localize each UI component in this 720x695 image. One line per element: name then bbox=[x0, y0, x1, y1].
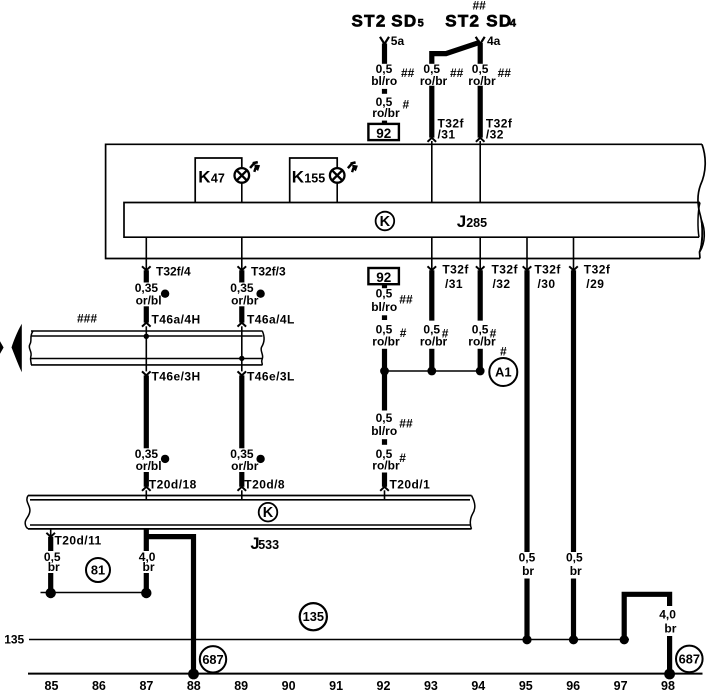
wire branch to ground (thick bracket) bbox=[146, 537, 193, 674]
svg-text:ro/br: ro/br bbox=[420, 334, 448, 348]
svg-text:ro/br: ro/br bbox=[468, 334, 496, 348]
svg-text:ro/br: ro/br bbox=[372, 458, 400, 472]
svg-text:/32: /32 bbox=[493, 277, 511, 291]
splice dot (B lower) bbox=[256, 455, 264, 463]
svg-text:T46a/4L: T46a/4L bbox=[247, 313, 295, 327]
svg-text:/30: /30 bbox=[538, 277, 556, 291]
wire dash (color change) bbox=[382, 89, 387, 94]
gateway J533 box bbox=[25, 496, 475, 529]
wire dash (C mid) bbox=[382, 315, 387, 320]
svg-text:91: 91 bbox=[329, 679, 343, 693]
ground wire 135 bbox=[29, 639, 629, 641]
svg-text:86: 86 bbox=[92, 679, 106, 693]
wire 135 to ground 687 (thick bracket right) bbox=[624, 594, 669, 674]
connector chevron T32f/31 bottom bbox=[428, 266, 437, 270]
pin stub T32f/3 bbox=[241, 237, 243, 270]
wire end dot (I) bbox=[141, 588, 151, 598]
J285 outer box torn right edge bbox=[698, 144, 705, 258]
svg-text:##: ## bbox=[473, 0, 487, 12]
lamp K47 box bbox=[195, 158, 242, 203]
svg-text:##: ## bbox=[401, 66, 415, 80]
ground reference 81 bbox=[86, 558, 110, 582]
warning arrow at K155 bbox=[348, 162, 358, 172]
svg-text:bl/ro: bl/ro bbox=[371, 300, 397, 314]
ground rail bbox=[28, 673, 703, 675]
svg-text:##: ## bbox=[450, 66, 464, 80]
ground link wire bbox=[41, 592, 147, 594]
svg-text:T20d/1: T20d/1 bbox=[390, 478, 431, 492]
svg-text:47: 47 bbox=[211, 171, 225, 185]
svg-text:/31: /31 bbox=[438, 128, 456, 142]
wire E to junction bbox=[478, 349, 483, 371]
J533 torn right edge bbox=[470, 496, 475, 529]
svg-text:#: # bbox=[399, 451, 406, 465]
wire br (T20d/11) bbox=[48, 537, 53, 593]
svg-text:687: 687 bbox=[679, 651, 700, 666]
svg-text:A1: A1 bbox=[495, 365, 512, 380]
svg-text:br: br bbox=[664, 622, 676, 636]
ground junction dot at 88 bbox=[188, 669, 199, 680]
svg-text:or/bl: or/bl bbox=[136, 293, 162, 307]
J285 internal bus box bbox=[124, 203, 700, 238]
svg-text:ro/br: ro/br bbox=[372, 106, 400, 120]
connector chevron T20d/11 bbox=[46, 533, 55, 537]
sheath continuation arrow clipped at edge bbox=[0, 341, 4, 353]
svg-text:##: ## bbox=[498, 66, 512, 80]
warning arrow at K47 bbox=[250, 162, 260, 172]
connector chevron T32f/31 top bbox=[428, 138, 437, 142]
junction dot E bbox=[476, 367, 485, 376]
wire or/br upper (B) bbox=[239, 270, 244, 322]
wire A through sheath bbox=[145, 326, 147, 371]
svg-text:T20d/8: T20d/8 bbox=[244, 478, 285, 492]
J533 torn left edge bbox=[25, 496, 30, 529]
wire T32f/31 below box bbox=[429, 270, 434, 320]
pin stub T32f/30 bbox=[526, 237, 528, 270]
wire T32f/32 below box bbox=[478, 270, 483, 320]
svg-text:K: K bbox=[198, 167, 211, 186]
svg-text:5a: 5a bbox=[391, 34, 405, 48]
svg-text:81: 81 bbox=[91, 563, 105, 578]
ground connection 687 (left) bbox=[200, 646, 226, 672]
svg-text:br: br bbox=[570, 564, 582, 578]
svg-text:0,5: 0,5 bbox=[376, 411, 393, 425]
svg-text:687: 687 bbox=[202, 652, 223, 667]
junction dot F on 135 bbox=[522, 635, 531, 644]
junction dot at 97 bbox=[620, 635, 629, 644]
connector arrow 5a bbox=[380, 37, 389, 44]
svg-text:T32f: T32f bbox=[584, 263, 611, 277]
sheath top outer line bbox=[31, 330, 263, 332]
wire or/bl upper (A) bbox=[144, 270, 149, 322]
connector chevron T20d/8 bbox=[238, 487, 247, 491]
svg-text:##: ## bbox=[399, 416, 413, 430]
svg-text:135: 135 bbox=[303, 609, 324, 624]
J285 torn edge lens mark bbox=[700, 220, 704, 252]
svg-text:4: 4 bbox=[510, 18, 517, 30]
wire C to junction bbox=[382, 349, 387, 371]
svg-text:###: ### bbox=[77, 311, 97, 325]
svg-text:95: 95 bbox=[519, 679, 533, 693]
wire K155 lamp to bus bbox=[336, 182, 338, 202]
sheath junction dot (A) bbox=[144, 334, 149, 339]
svg-text:87: 87 bbox=[139, 679, 153, 693]
wire from SD4 4a (ro/br) bbox=[478, 43, 483, 64]
svg-text:J: J bbox=[457, 212, 466, 231]
sheath left continuation arrow bbox=[12, 324, 22, 373]
svg-text:or/bl: or/bl bbox=[136, 459, 162, 473]
connector chevron T32f/32 bottom bbox=[476, 266, 485, 270]
svg-text:T32f/3: T32f/3 bbox=[251, 265, 286, 279]
wire B through sheath bbox=[241, 326, 243, 371]
sheath bottom inner line bbox=[31, 358, 263, 360]
svg-text:T20d/18: T20d/18 bbox=[149, 478, 197, 492]
svg-text:T46e/3H: T46e/3H bbox=[152, 370, 201, 384]
svg-text:4,0: 4,0 bbox=[659, 608, 676, 622]
junction dot C bbox=[380, 367, 389, 376]
connector chevron T46e/3L bbox=[238, 371, 247, 375]
sheath bottom outer line bbox=[31, 364, 263, 366]
svg-text:96: 96 bbox=[566, 679, 580, 693]
svg-text:0,5: 0,5 bbox=[566, 550, 583, 564]
connector chevron T32f/30 bbox=[523, 266, 532, 270]
wire stub above 92 box bbox=[382, 121, 387, 125]
svg-text:/31: /31 bbox=[445, 277, 463, 291]
svg-text:88: 88 bbox=[187, 679, 201, 693]
svg-text:or/br: or/br bbox=[231, 459, 259, 473]
connector chevron T46a/4H bbox=[142, 323, 151, 327]
svg-text:#: # bbox=[403, 98, 410, 112]
wire end dot (H) bbox=[46, 588, 56, 598]
connection A1 bbox=[489, 358, 517, 386]
svg-text:ST2: ST2 bbox=[352, 12, 387, 31]
svg-text:K: K bbox=[292, 167, 305, 186]
wire T32f/31 inside box bbox=[431, 141, 433, 203]
wire T32f/32 inside box bbox=[479, 141, 481, 203]
connector arrow 4a bbox=[476, 37, 485, 44]
pin stub T32f/4 bbox=[145, 237, 147, 270]
ground junction dot at 98 bbox=[664, 669, 675, 680]
svg-text:92: 92 bbox=[376, 270, 391, 285]
lamp K155 box bbox=[290, 158, 338, 203]
svg-text:T46e/3L: T46e/3L bbox=[247, 370, 295, 384]
splice dot (B upper) bbox=[256, 290, 264, 298]
reference box 92 (middle) bbox=[368, 268, 399, 285]
svg-text:/29: /29 bbox=[586, 277, 604, 291]
connector chevron T32f/4 bbox=[142, 266, 151, 270]
J533 bus symbol circled K bbox=[259, 503, 278, 522]
connector chevron T20d/1 bbox=[380, 487, 389, 491]
wire or/bl lower (A) bbox=[144, 375, 149, 486]
pin stub T20d/11 bbox=[50, 529, 52, 537]
lamp K47 bulb symbol bbox=[235, 168, 250, 183]
ground connection 687 (right) bbox=[676, 646, 703, 673]
svg-text:98: 98 bbox=[661, 679, 675, 693]
wire B into J533 bbox=[241, 490, 243, 500]
svg-text:85: 85 bbox=[45, 679, 59, 693]
bus symbol circled K bbox=[376, 212, 395, 231]
svg-text:533: 533 bbox=[258, 538, 279, 552]
svg-text:T46a/4H: T46a/4H bbox=[152, 313, 201, 327]
J285 bus torn right edge bbox=[698, 203, 700, 238]
wire A into J533 bbox=[145, 490, 147, 500]
svg-text:##: ## bbox=[399, 292, 413, 306]
wire C into J533 bbox=[384, 490, 386, 500]
sheath junction dot (B) bbox=[239, 356, 244, 361]
connector chevron T46a/4L bbox=[238, 323, 247, 327]
svg-text:#: # bbox=[400, 326, 407, 340]
wire or/br lower (B) bbox=[239, 375, 244, 486]
svg-text:bl/ro: bl/ro bbox=[371, 424, 397, 438]
wire branch 4a to T32f/31 (diagonal) bbox=[430, 42, 481, 53]
svg-text:T32f: T32f bbox=[534, 263, 561, 277]
svg-text:or/br: or/br bbox=[231, 293, 259, 307]
svg-text:92: 92 bbox=[376, 126, 391, 141]
wire C to T20d/1 bbox=[382, 473, 387, 487]
svg-text:135: 135 bbox=[4, 633, 24, 647]
svg-text:0,5: 0,5 bbox=[376, 287, 393, 301]
connector chevron T46e/3H bbox=[142, 371, 151, 375]
reference box 92 (top) bbox=[368, 124, 399, 141]
svg-text:92: 92 bbox=[377, 679, 391, 693]
sheath torn left edge bbox=[29, 331, 33, 365]
wire T32f/31 top segment bbox=[429, 51, 434, 64]
svg-text:155: 155 bbox=[304, 171, 325, 185]
svg-text:5: 5 bbox=[418, 18, 424, 30]
svg-text:285: 285 bbox=[466, 216, 487, 230]
junction dot G on 135 bbox=[569, 635, 578, 644]
svg-text:94: 94 bbox=[471, 679, 485, 693]
wire 0,5 br (F) bbox=[524, 270, 529, 640]
sheath top inner line bbox=[31, 335, 263, 337]
ground reference 135 bbox=[300, 603, 327, 630]
svg-text:K: K bbox=[380, 214, 391, 230]
connector chevron T32f/32 top bbox=[476, 138, 485, 142]
wire stub below 92 box bbox=[382, 284, 387, 288]
pin stub T32f/29 bbox=[573, 237, 575, 270]
svg-text:T32f: T32f bbox=[442, 263, 469, 277]
wire K47 lamp to bus bbox=[241, 182, 243, 202]
svg-text:97: 97 bbox=[614, 679, 628, 693]
svg-text:89: 89 bbox=[234, 679, 248, 693]
connector chevron T32f/3 bbox=[238, 266, 247, 270]
svg-text:br: br bbox=[143, 560, 155, 574]
wire T32f/31 into box bbox=[429, 86, 434, 138]
svg-text:K: K bbox=[263, 505, 274, 521]
wire 4,0 br (I) bbox=[144, 529, 149, 593]
pin stub T32f/31 bottom bbox=[431, 237, 433, 270]
wire dash (C low) bbox=[382, 439, 387, 445]
svg-text:bl/ro: bl/ro bbox=[371, 74, 397, 88]
svg-text:SD: SD bbox=[486, 12, 512, 31]
svg-text:T32f: T32f bbox=[492, 263, 519, 277]
junction dot D bbox=[427, 367, 436, 376]
wire T32f/32 into box bbox=[478, 86, 483, 138]
connector chevron T20d/18 bbox=[142, 487, 151, 491]
wire from SD5 5a (bl/ro) bbox=[382, 44, 387, 64]
svg-text:0,5: 0,5 bbox=[519, 550, 536, 564]
svg-text:T20d/11: T20d/11 bbox=[55, 533, 102, 547]
svg-text:br: br bbox=[48, 560, 60, 574]
svg-text:ro/br: ro/br bbox=[372, 334, 400, 348]
lamp K155 bulb symbol bbox=[330, 168, 345, 183]
svg-text:SD: SD bbox=[391, 12, 417, 31]
splice dot (A upper) bbox=[161, 290, 169, 298]
splice dot (A lower) bbox=[161, 455, 169, 463]
svg-text:br: br bbox=[522, 564, 534, 578]
sheath torn right edge bbox=[261, 331, 264, 365]
svg-text:ST2: ST2 bbox=[445, 12, 480, 31]
svg-text:#: # bbox=[500, 344, 507, 358]
wire D to junction bbox=[429, 349, 434, 371]
connector chevron T32f/29 bbox=[569, 266, 578, 270]
svg-text:T32f/4: T32f/4 bbox=[156, 265, 191, 279]
wire C below junction bbox=[382, 371, 387, 411]
svg-text:90: 90 bbox=[282, 679, 296, 693]
pin stub T32f/32 bottom bbox=[479, 237, 481, 270]
svg-text:93: 93 bbox=[424, 679, 438, 693]
svg-text:/32: /32 bbox=[486, 128, 504, 142]
wire 0,5 br (G) bbox=[571, 270, 576, 640]
svg-text:4a: 4a bbox=[487, 34, 501, 48]
control unit J285 outer box bbox=[106, 144, 702, 258]
junction wire A1 bbox=[385, 370, 481, 372]
